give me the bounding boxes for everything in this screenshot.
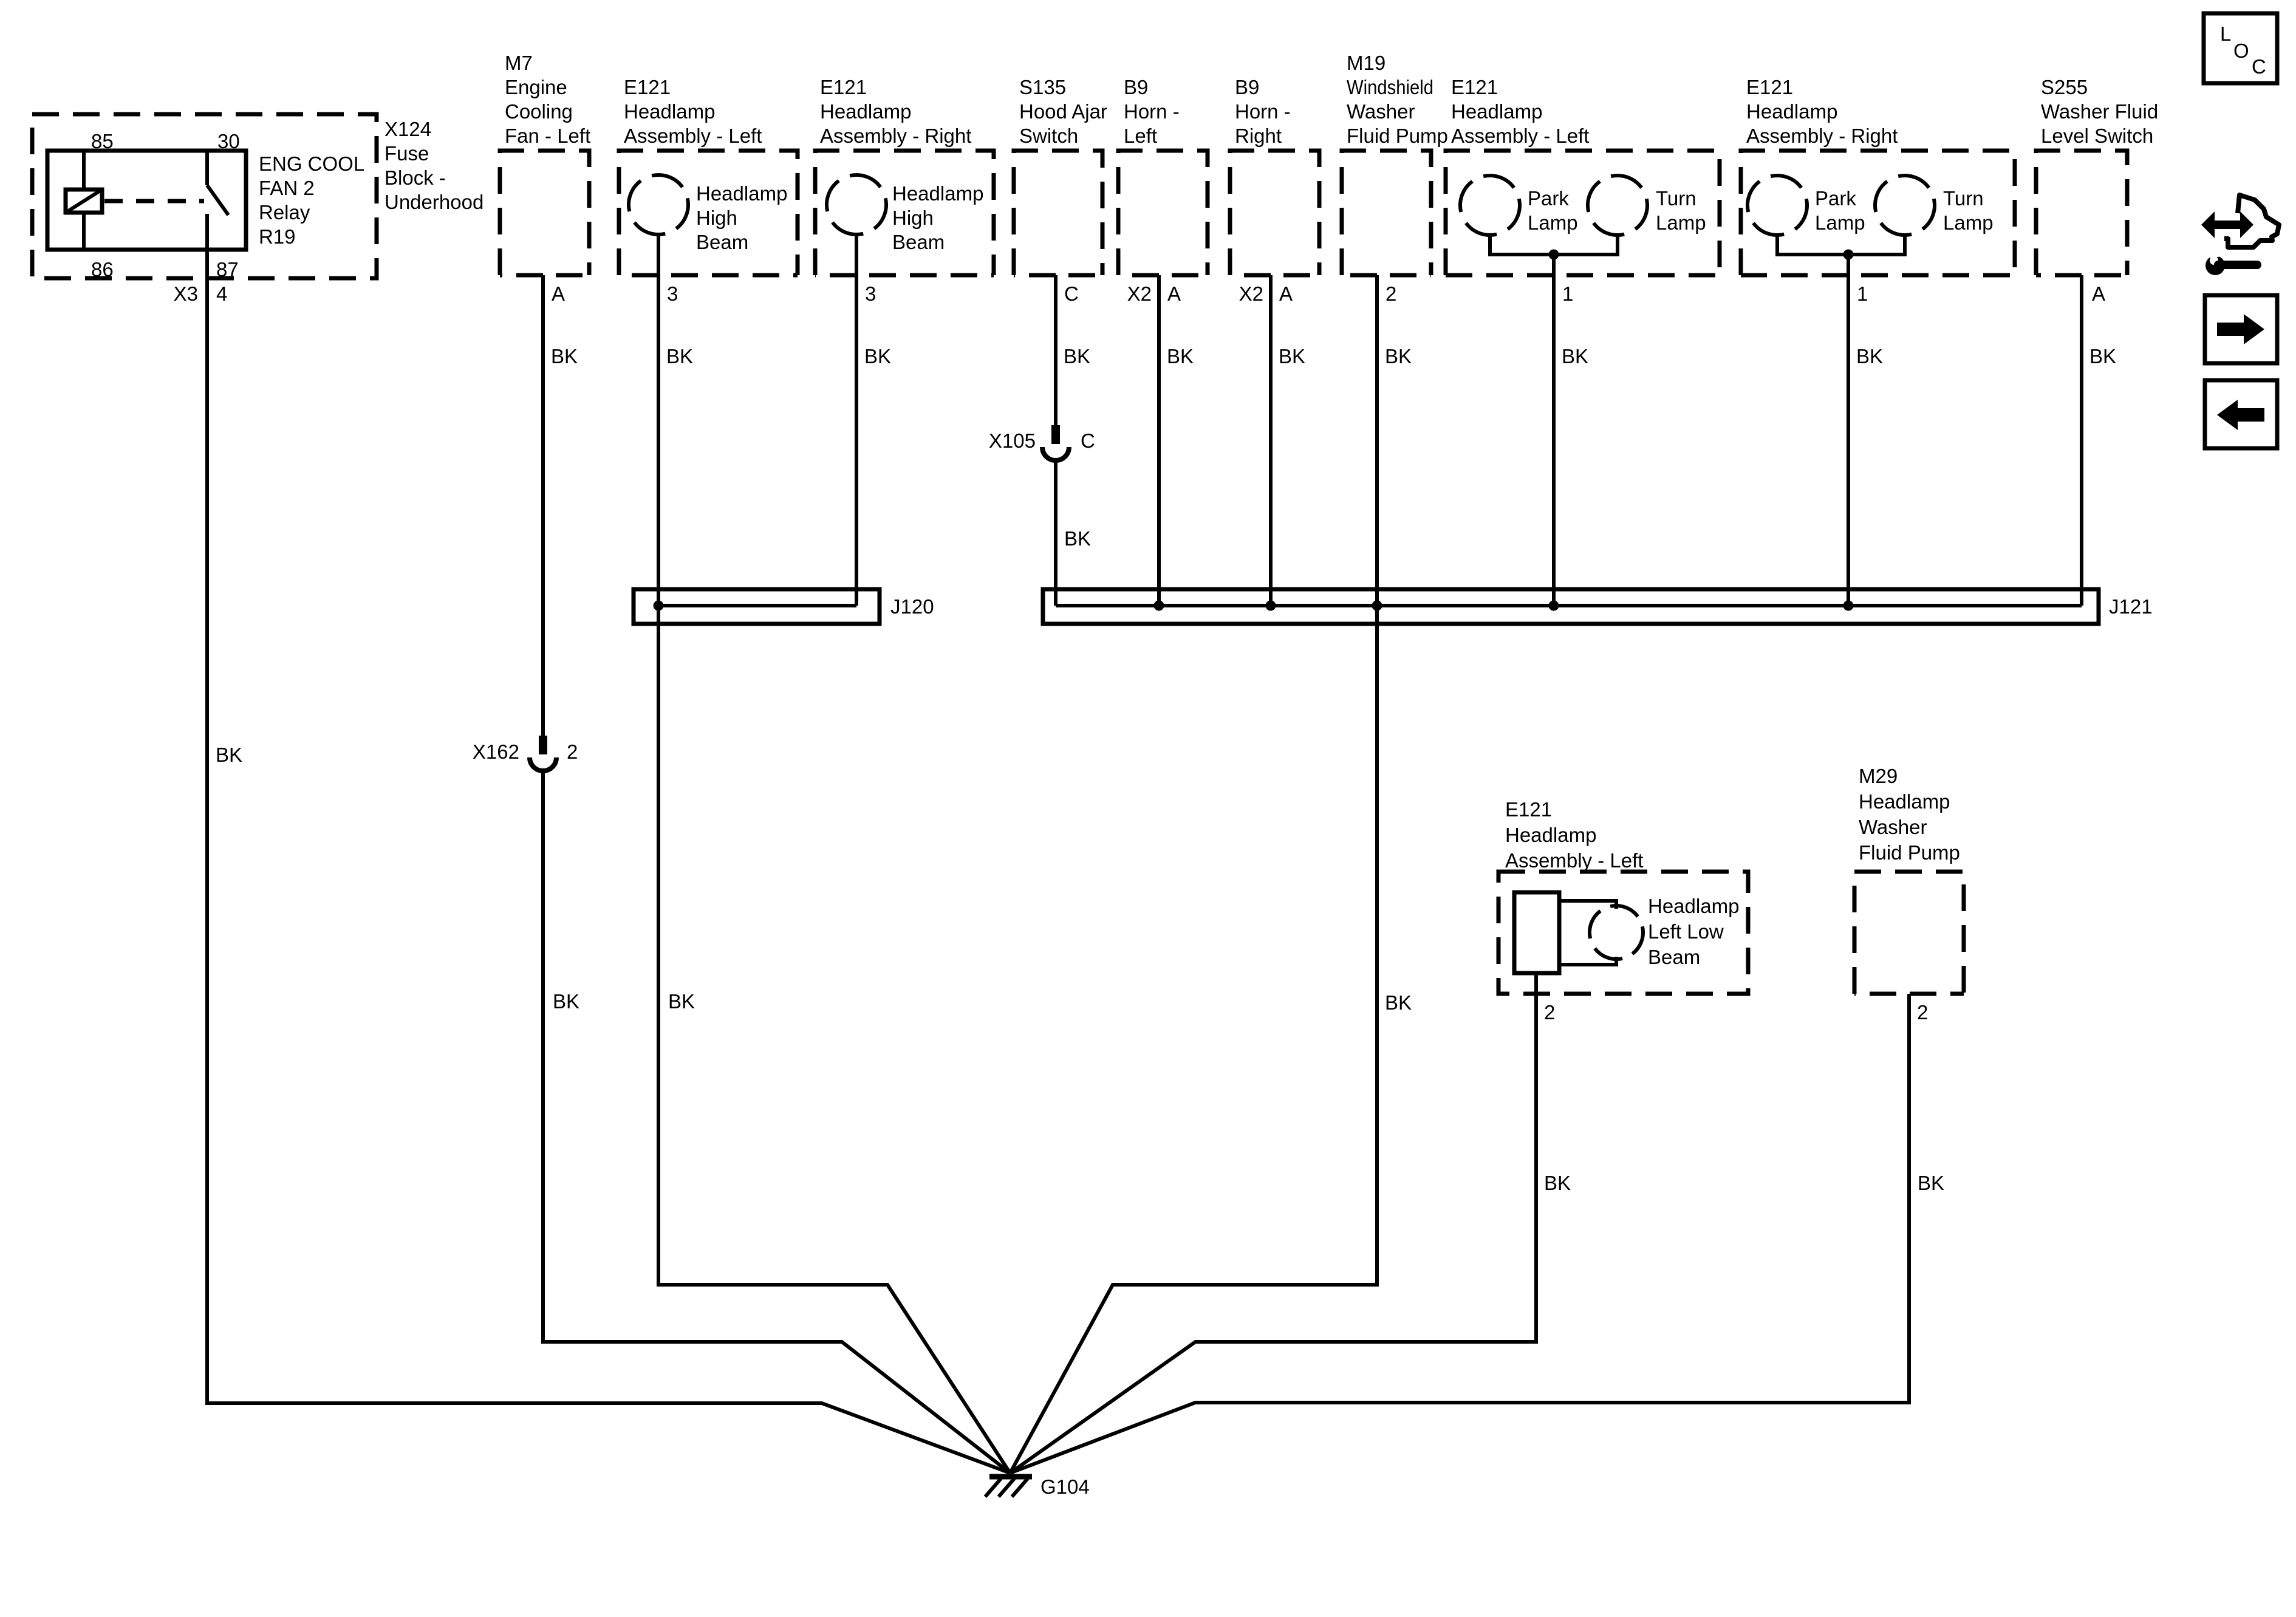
wire: headlamp high beam right pin 3 to J120 (BK): [855, 234, 858, 606]
svg-text:X105: X105: [989, 429, 1036, 452]
svg-text:E121: E121: [1451, 76, 1498, 98]
B9 horn - right: [1230, 151, 1319, 275]
bulb: park lamp left: [1452, 167, 1528, 244]
wire: M19 washer pump pin 2 through J121 to G104 (BK): [1010, 275, 1377, 1473]
svg-text:Underhood: Underhood: [384, 191, 483, 213]
wire: M29 headlamp washer pump pin 2 to G104 (BK): [1010, 994, 1909, 1473]
svg-text:Engine: Engine: [505, 76, 567, 98]
svg-text:J121: J121: [2109, 595, 2153, 618]
svg-text:E121: E121: [1505, 798, 1552, 821]
svg-text:A: A: [2092, 282, 2105, 305]
svg-text:X162: X162: [473, 740, 519, 763]
svg-text:BK: BK: [553, 990, 579, 1013]
park/turn right internal junction: [1777, 235, 1905, 255]
M7 engine cooling fan - left: [500, 151, 589, 275]
svg-text:Headlamp: Headlamp: [1746, 100, 1837, 123]
svg-text:Fuse: Fuse: [384, 142, 429, 165]
B9 horn - left: [1118, 151, 1208, 275]
svg-text:X3: X3: [174, 282, 198, 305]
svg-text:G104: G104: [1040, 1475, 1090, 1498]
svg-text:2: 2: [567, 740, 578, 763]
ground G104: [989, 1474, 1032, 1480]
svg-text:Relay: Relay: [259, 201, 310, 224]
svg-text:C: C: [2252, 55, 2266, 78]
wire: horn left pin A to J121 (BK): [1157, 275, 1161, 606]
svg-text:E121: E121: [1746, 76, 1793, 98]
svg-text:Headlamp: Headlamp: [624, 100, 715, 123]
wrench: [2205, 256, 2225, 275]
wire: S135 hood ajar switch pin C to X105 (BK): [1054, 275, 1057, 425]
svg-text:86: 86: [91, 258, 114, 281]
svg-text:Lamp: Lamp: [1815, 211, 1865, 234]
svg-text:Assembly - Right: Assembly - Right: [1746, 125, 1898, 147]
svg-text:BK: BK: [216, 744, 242, 766]
svg-text:Beam: Beam: [696, 231, 748, 253]
svg-text:S135: S135: [1019, 76, 1066, 98]
svg-text:BK: BK: [1064, 345, 1090, 367]
svg-text:3: 3: [667, 282, 678, 305]
svg-text:X2: X2: [1239, 282, 1263, 305]
wire: M7 pin A to X162 (BK): [541, 275, 545, 736]
svg-text:Headlamp: Headlamp: [696, 182, 787, 205]
svg-text:L: L: [2220, 22, 2231, 45]
splice pack J120: [634, 589, 880, 624]
svg-text:Assembly - Left: Assembly - Left: [1505, 849, 1643, 872]
svg-text:BK: BK: [1064, 527, 1091, 550]
svg-text:87: 87: [216, 258, 239, 281]
relay R19 ENG COOL FAN 2: [47, 151, 246, 250]
relay switch contact 30-87: [205, 151, 209, 185]
svg-text:High: High: [696, 207, 737, 229]
svg-text:2: 2: [1385, 282, 1396, 305]
svg-text:BK: BK: [2089, 345, 2116, 367]
svg-text:BK: BK: [1544, 1172, 1571, 1194]
svg-text:O: O: [2233, 39, 2249, 62]
svg-text:Left Low: Left Low: [1648, 920, 1724, 943]
svg-text:30: 30: [217, 130, 240, 152]
svg-text:A: A: [1167, 282, 1181, 305]
wire: horn right pin A to J121 (BK): [1269, 275, 1273, 606]
junction: park/turn left at J121: [1549, 601, 1559, 611]
svg-text:Turn: Turn: [1656, 187, 1696, 210]
svg-text:Switch: Switch: [1019, 125, 1078, 147]
low beam connector body: [1514, 892, 1559, 973]
LOC legend box: [2204, 13, 2277, 83]
double arrow: [2201, 211, 2253, 238]
M29 headlamp washer fluid pump: [1854, 872, 1964, 994]
bulb: park lamp right: [1739, 167, 1816, 244]
svg-text:B9: B9: [1235, 76, 1259, 98]
wire: headlamp left low beam pin 2 to G104 (BK): [1010, 973, 1536, 1473]
svg-text:Turn: Turn: [1943, 187, 1984, 210]
S255 washer fluid level switch: [2036, 151, 2127, 275]
svg-text:J120: J120: [890, 595, 934, 618]
bulb: headlamp high beam left: [620, 166, 697, 243]
svg-text:BK: BK: [1167, 345, 1194, 367]
svg-text:Assembly - Left: Assembly - Left: [1451, 125, 1589, 147]
svg-text:Lamp: Lamp: [1943, 211, 1994, 234]
svg-text:Headlamp: Headlamp: [1859, 790, 1950, 813]
svg-text:A: A: [1279, 282, 1293, 305]
svg-text:Headlamp: Headlamp: [1451, 100, 1542, 123]
svg-text:Level Switch: Level Switch: [2041, 125, 2153, 147]
relay actuating dashed link: [104, 199, 204, 203]
fuse block X124 - Underhood: [32, 114, 377, 278]
svg-text:3: 3: [865, 282, 876, 305]
next page arrow box: [2205, 295, 2277, 363]
svg-text:Headlamp: Headlamp: [1505, 824, 1596, 846]
splice pack J121: [1043, 589, 2099, 624]
svg-text:Fan - Left: Fan - Left: [505, 125, 590, 147]
svg-text:M7: M7: [505, 52, 533, 74]
previous page arrow box: [2205, 380, 2277, 448]
svg-text:Block -: Block -: [384, 166, 446, 189]
junction: horn right at J121: [1266, 601, 1276, 611]
wire: headlamp high beam left pin 3 through J120 to G104 (BK): [658, 234, 1010, 1473]
inline connector X162 pin 2: [539, 736, 547, 754]
svg-text:Washer Fluid: Washer Fluid: [2041, 100, 2158, 123]
svg-text:BK: BK: [864, 345, 891, 367]
wire: X162 to G104 (BK): [543, 771, 1010, 1473]
svg-text:X2: X2: [1127, 282, 1152, 305]
svg-text:Fluid Pump: Fluid Pump: [1347, 125, 1448, 147]
svg-text:2: 2: [1917, 1001, 1928, 1024]
svg-text:M19: M19: [1347, 52, 1385, 74]
svg-text:Fluid Pump: Fluid Pump: [1859, 841, 1960, 864]
svg-text:BK: BK: [1385, 991, 1412, 1014]
svg-text:Horn -: Horn -: [1124, 100, 1180, 123]
svg-text:Horn -: Horn -: [1235, 100, 1291, 123]
svg-text:Washer: Washer: [1347, 100, 1415, 123]
svg-text:R19: R19: [259, 225, 296, 248]
svg-text:BK: BK: [1562, 345, 1588, 367]
svg-text:E121: E121: [624, 76, 671, 98]
junction: M19 washer pump at J121: [1372, 601, 1382, 611]
svg-text:Lamp: Lamp: [1656, 211, 1706, 234]
junction: high beam left at J120: [654, 601, 664, 611]
svg-text:1: 1: [1857, 282, 1868, 305]
wire: headlamp left park/turn pin 1 to J121 (BK): [1552, 255, 1556, 606]
svg-text:2: 2: [1544, 1001, 1555, 1024]
svg-text:Assembly - Left: Assembly - Left: [624, 125, 762, 147]
svg-text:A: A: [552, 282, 565, 305]
svg-text:Left: Left: [1124, 125, 1157, 147]
svg-text:BK: BK: [1856, 345, 1883, 367]
svg-text:Cooling: Cooling: [505, 100, 573, 123]
bulb: turn lamp right: [1867, 167, 1943, 244]
E121 headlamp assembly - left (low beam): [1498, 872, 1748, 994]
E121 headlamp assembly - left (high beam): [619, 151, 798, 275]
E121 headlamp assembly - left (park/turn): [1446, 151, 1720, 275]
svg-text:ENG COOL: ENG COOL: [259, 152, 364, 175]
svg-text:S255: S255: [2041, 76, 2088, 98]
wire: relay pin 87 / X3-4 to G104 (BK): [207, 214, 1010, 1473]
svg-text:Hood Ajar: Hood Ajar: [1019, 100, 1107, 123]
svg-text:Washer: Washer: [1859, 816, 1927, 838]
svg-text:BK: BK: [1385, 345, 1412, 367]
svg-text:BK: BK: [551, 345, 578, 367]
wire: X105 to J121 (BK): [1054, 460, 1057, 606]
svg-text:BK: BK: [1279, 345, 1305, 367]
svg-text:FAN 2: FAN 2: [259, 177, 315, 199]
inline connector X105 pin C: [1051, 425, 1060, 444]
svg-text:Headlamp: Headlamp: [1648, 895, 1739, 917]
svg-text:E121: E121: [820, 76, 867, 98]
S135 hood ajar switch: [1014, 151, 1102, 275]
park/turn left internal junction: [1490, 235, 1618, 255]
svg-text:BK: BK: [1918, 1172, 1944, 1194]
svg-text:C: C: [1081, 429, 1095, 452]
svg-text:Park: Park: [1815, 187, 1856, 210]
E121 headlamp assembly - right (park/turn): [1741, 151, 2015, 275]
wire: headlamp right park/turn pin 1 to J121 (BK): [1847, 255, 1850, 606]
svg-text:Headlamp: Headlamp: [820, 100, 911, 123]
svg-text:BK: BK: [666, 345, 693, 367]
bulb: headlamp left low beam: [1582, 898, 1651, 967]
svg-text:Right: Right: [1235, 125, 1282, 147]
service/towing vehicle icon: [2224, 195, 2279, 247]
junction: park/turn right at J121: [1843, 601, 1854, 611]
E121 headlamp assembly - right (high beam): [815, 151, 994, 275]
svg-text:Assembly - Right: Assembly - Right: [820, 125, 971, 147]
svg-text:85: 85: [91, 130, 114, 152]
svg-text:Beam: Beam: [1648, 946, 1700, 968]
M19 windshield washer fluid pump: [1342, 151, 1431, 275]
svg-text:BK: BK: [668, 990, 695, 1013]
svg-text:1: 1: [1562, 282, 1573, 305]
svg-text:4: 4: [216, 282, 227, 305]
svg-text:X124: X124: [384, 118, 431, 140]
bulb: headlamp high beam right: [818, 166, 895, 243]
svg-text:M29: M29: [1859, 765, 1898, 787]
svg-text:Park: Park: [1528, 187, 1569, 210]
svg-text:Headlamp: Headlamp: [892, 182, 983, 205]
wire: S255 washer fluid level switch pin A to J121 (BK): [2080, 275, 2083, 606]
relay coil: [82, 151, 86, 190]
svg-text:Beam: Beam: [892, 231, 945, 253]
bulb: turn lamp left: [1579, 167, 1656, 244]
svg-text:C: C: [1064, 282, 1079, 305]
junction: horn left at J121: [1154, 601, 1164, 611]
svg-text:Windshield: Windshield: [1347, 76, 1433, 98]
svg-text:High: High: [892, 207, 934, 229]
svg-text:Lamp: Lamp: [1528, 211, 1578, 234]
svg-text:B9: B9: [1124, 76, 1148, 98]
